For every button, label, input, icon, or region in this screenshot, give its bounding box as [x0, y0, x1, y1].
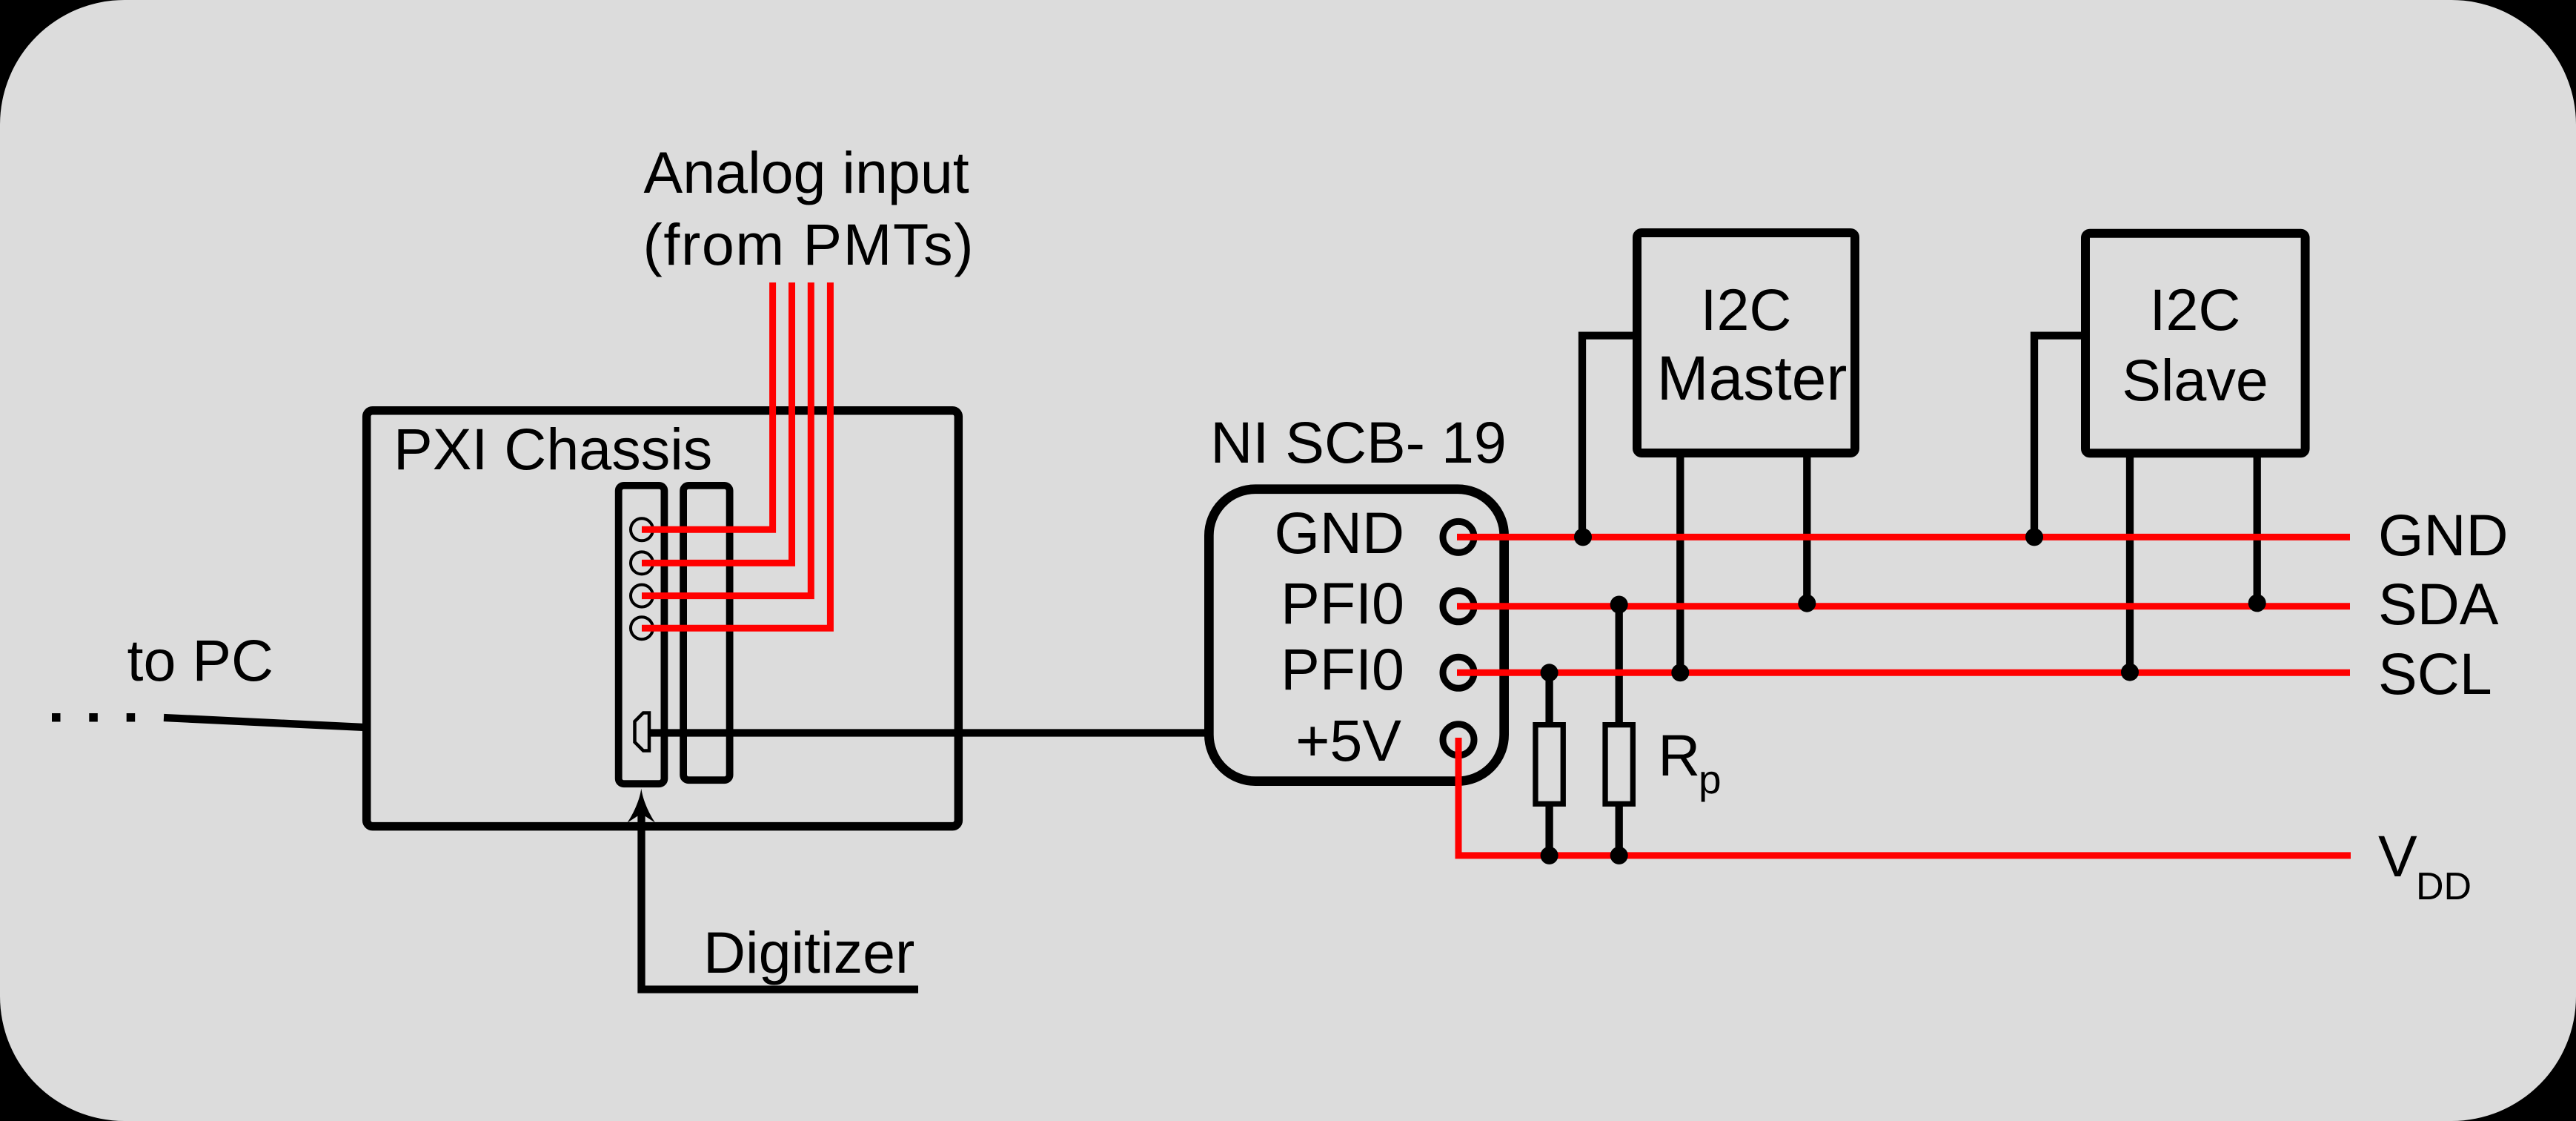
svg-text:I2C: I2C [1701, 277, 1792, 343]
svg-text:R: R [1658, 722, 1700, 788]
svg-text:Analog input: Analog input [644, 139, 969, 205]
svg-text:SCL: SCL [2378, 641, 2492, 707]
svg-text:p: p [1699, 756, 1722, 802]
svg-text:NI SCB- 19: NI SCB- 19 [1210, 409, 1507, 475]
svg-text:PFI0: PFI0 [1281, 636, 1404, 702]
svg-text:Digitizer: Digitizer [703, 919, 914, 985]
svg-text:to PC: to PC [127, 627, 274, 693]
svg-text:SDA: SDA [2378, 571, 2499, 637]
svg-text:DD: DD [2416, 865, 2472, 908]
svg-text:(from PMTs): (from PMTs) [643, 211, 975, 277]
svg-text:GND: GND [1274, 500, 1404, 566]
svg-text:Slave: Slave [2122, 347, 2268, 413]
svg-text:Master: Master [1657, 343, 1848, 413]
svg-text:V: V [2378, 823, 2417, 889]
svg-text:GND: GND [2378, 502, 2509, 568]
svg-text:PFI0: PFI0 [1281, 570, 1404, 636]
svg-text:+5V: +5V [1295, 707, 1401, 773]
svg-text:PXI Chassis: PXI Chassis [394, 416, 712, 482]
svg-text:I2C: I2C [2150, 277, 2241, 343]
